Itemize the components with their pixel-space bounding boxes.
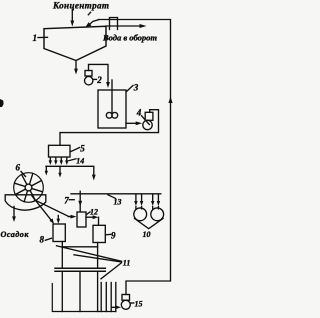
downpipe from press 8 xyxy=(61,242,63,269)
cyclone feed arrows xyxy=(134,194,160,209)
svg-text:Концентрат: Концентрат xyxy=(52,0,109,10)
svg-text:15: 15 xyxy=(135,300,143,309)
label 15 xyxy=(131,300,143,309)
vat internal compartment walls xyxy=(62,271,97,311)
svg-text:5: 5 xyxy=(80,144,85,154)
svg-text:7: 7 xyxy=(64,195,69,205)
label 9 xyxy=(106,231,116,241)
agitated tank 3 xyxy=(98,90,126,128)
svg-text:Вода в оборот: Вода в оборот xyxy=(102,32,157,42)
label 7 xyxy=(64,195,74,205)
up arrowhead on recycle riser xyxy=(168,97,172,104)
vat outlet arrow to pump 15 xyxy=(112,305,121,309)
pump 2 xyxy=(85,71,93,85)
label 14 xyxy=(69,157,84,166)
label 4 xyxy=(136,108,150,125)
svg-text:11: 11 xyxy=(123,259,131,268)
manifold line between downpipes xyxy=(62,246,97,248)
middle drop arrow from launder xyxy=(58,166,61,177)
vat outer wall left xyxy=(52,284,116,312)
vat right compartment walls xyxy=(101,283,116,312)
feed arrow into press 8 xyxy=(57,216,61,224)
label 2 xyxy=(94,75,103,85)
label 1 xyxy=(33,33,48,43)
leader lines of label 11 xyxy=(57,246,122,279)
label 12 xyxy=(87,208,99,217)
press filter 8 xyxy=(53,224,65,242)
pump 15 xyxy=(121,295,130,310)
pump 4 xyxy=(143,112,153,129)
drum vacuum filter 6 xyxy=(14,173,44,203)
pump 2 discharge pipe into tank 3 xyxy=(89,64,110,88)
text Осадок xyxy=(1,230,30,239)
feed arrow into vessel 1 xyxy=(70,10,74,27)
press filter 9 xyxy=(93,225,105,242)
svg-text:13: 13 xyxy=(114,198,122,207)
conditioning tank 12 xyxy=(77,212,86,227)
svg-text:1: 1 xyxy=(33,33,38,43)
label 6 xyxy=(16,163,26,177)
svg-text:3: 3 xyxy=(133,83,139,93)
label 8 xyxy=(40,235,52,245)
diagonal line filter to press 8 xyxy=(32,196,54,224)
distributing launder line 7 xyxy=(71,193,161,195)
svg-text:10: 10 xyxy=(143,230,151,239)
scan blob on left edge xyxy=(0,99,4,107)
filter bath xyxy=(5,195,46,210)
agitator shaft and impeller of tank 3 xyxy=(106,80,117,118)
text Вода в оборот xyxy=(102,32,157,42)
pipe tank 12 to press 9 xyxy=(86,215,99,225)
svg-text:9: 9 xyxy=(111,231,116,241)
sediment arrow xyxy=(12,207,16,223)
distributor box 5 xyxy=(49,145,71,157)
svg-text:8: 8 xyxy=(40,235,45,245)
label 5 xyxy=(71,144,85,154)
cyclone pair 10 xyxy=(134,208,164,229)
drop arrow to filter from launder xyxy=(45,166,48,175)
svg-text:6: 6 xyxy=(16,163,21,173)
svg-text:2: 2 xyxy=(96,75,102,85)
svg-text:Осадок: Осадок xyxy=(1,230,30,239)
overflow box device xyxy=(110,18,118,30)
svg-text:12: 12 xyxy=(90,208,98,217)
tank 3 outlet arrow to pump 4 xyxy=(126,121,142,125)
downpipe from press 9 xyxy=(97,243,99,269)
overflow pipe from vessel 1 xyxy=(106,24,147,28)
branch arrow from line 7 into tank 12 xyxy=(78,191,82,211)
diagonal line filter to tank 12 xyxy=(35,200,77,219)
label 10 xyxy=(143,230,151,239)
label 3 xyxy=(127,83,139,93)
svg-text:14: 14 xyxy=(76,157,84,166)
text Концентрат xyxy=(52,0,109,14)
launder line from box 5 xyxy=(46,166,96,180)
label 11 xyxy=(123,259,131,268)
label 13 xyxy=(108,195,122,207)
underflow arrow below vessel 1 xyxy=(74,61,78,75)
vessel 1 (thickener) xyxy=(44,26,106,60)
spray arrows 14 below box 5 xyxy=(49,158,69,165)
settling vat rim xyxy=(55,268,105,271)
recycle water line (pump 15 to thickener) xyxy=(85,20,170,295)
pump 4 discharge return line to box 5 xyxy=(60,110,159,146)
